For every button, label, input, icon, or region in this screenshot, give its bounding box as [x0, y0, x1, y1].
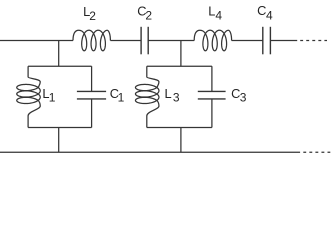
wire tank1 to bottom rail — [58, 128, 60, 153]
wire L2 to C2 — [110, 40, 141, 42]
wire tank2 top side — [147, 65, 212, 67]
wire tank1 right upper — [91, 66, 93, 91]
inductor L1 — [17, 66, 41, 127]
wire bottom rail — [0, 151, 300, 153]
inductor L4 — [194, 30, 231, 51]
wire tank1 top side — [28, 65, 92, 67]
wire top dashed continuation — [300, 40, 327, 42]
svg-text:L: L — [208, 4, 215, 19]
svg-text:3: 3 — [173, 91, 180, 105]
inductor L3 — [135, 66, 159, 127]
wire tank2 right upper — [211, 66, 213, 91]
node 1 junction drop — [58, 41, 60, 67]
capacitor C4 — [263, 27, 271, 55]
inductor L2 — [73, 30, 110, 51]
svg-text:2: 2 — [145, 9, 152, 23]
wire C2 to L4 — [148, 40, 194, 42]
svg-text:1: 1 — [49, 91, 56, 105]
svg-text:3: 3 — [240, 91, 247, 105]
capacitor C3 — [198, 91, 226, 99]
wire tank1 right lower — [91, 99, 93, 128]
node 2 junction drop — [180, 41, 182, 67]
svg-text:C: C — [257, 3, 266, 18]
capacitor C2 — [141, 27, 148, 55]
wire tank2 right lower — [211, 99, 213, 128]
wire tank2 bottom side — [147, 127, 212, 129]
wire tank2 to bottom rail — [180, 128, 182, 153]
wire C4 right lead — [270, 40, 297, 42]
svg-text:4: 4 — [215, 9, 222, 23]
svg-text:L: L — [165, 86, 172, 101]
capacitor C1 — [77, 91, 106, 99]
wire bottom dashed continuation — [303, 151, 330, 153]
wire L4 to C4 — [232, 40, 263, 42]
svg-text:1: 1 — [118, 91, 125, 105]
wire tank1 bottom side — [28, 127, 92, 129]
svg-text:2: 2 — [89, 9, 96, 23]
wire top-left lead — [0, 40, 73, 42]
svg-text:4: 4 — [266, 9, 273, 23]
